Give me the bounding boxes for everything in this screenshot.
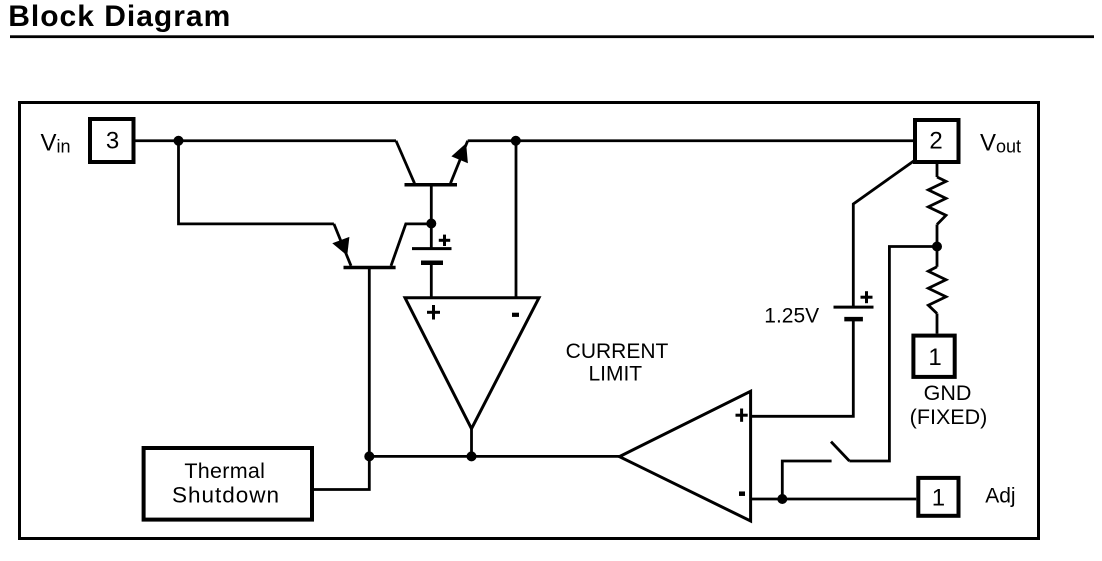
svg-text:1.25V: 1.25V [764,305,819,328]
svg-text:Shutdown: Shutdown [172,482,280,507]
svg-text:Adj: Adj [985,485,1015,508]
svg-text:1: 1 [928,344,941,371]
svg-text:Thermal: Thermal [184,459,265,483]
svg-text:1: 1 [932,484,945,511]
svg-text:CURRENT: CURRENT [566,340,669,363]
svg-text:(FIXED): (FIXED) [910,405,988,429]
svg-text:2: 2 [929,128,942,155]
svg-text:GND: GND [924,381,972,405]
svg-text:3: 3 [106,128,119,155]
svg-text:Vin: Vin [41,130,71,157]
svg-text:Vout: Vout [980,130,1021,157]
svg-text:LIMIT: LIMIT [588,363,642,386]
svg-text:Block Diagram: Block Diagram [8,0,231,33]
